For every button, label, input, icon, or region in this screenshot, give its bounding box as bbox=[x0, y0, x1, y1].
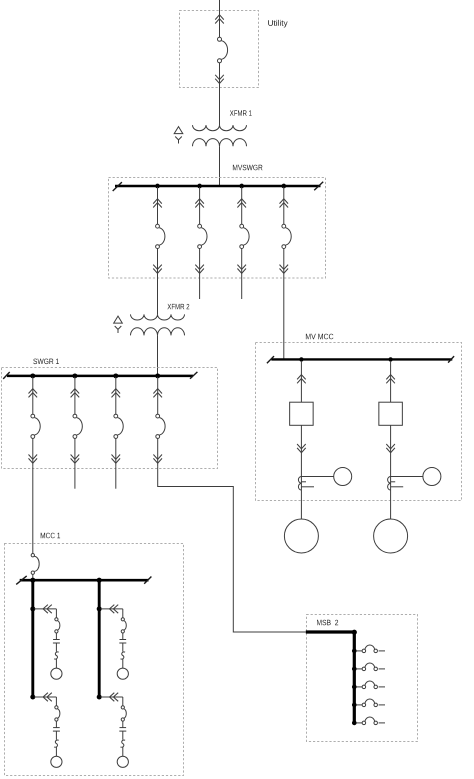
node: riser 2 tap A bbox=[97, 606, 102, 611]
XFMR 2 wye symbol bbox=[115, 326, 122, 333]
MVSWGR feeder breaker 2 (drawout disconnect) bbox=[195, 187, 207, 277]
XFMR 1 delta symbol bbox=[174, 127, 183, 134]
SWGR 1 feeder breaker 2 (drawout disconnect) bbox=[71, 377, 83, 467]
node: MSB 2 bus corner bbox=[352, 630, 357, 635]
node: MVSWGR bus tap 3 bbox=[239, 184, 244, 189]
XFMR 2 delta symbol bbox=[114, 316, 123, 323]
MVSWGR feeder breaker 1 (drawout disconnect) bbox=[153, 187, 165, 277]
MCC 1 dashed enclosure bbox=[5, 544, 184, 776]
MSB 2 dashed enclosure bbox=[307, 615, 418, 742]
wire: MVSWGR feeder 4 to MV MCC bus bbox=[283, 277, 285, 359]
MCC 1 branch starter 2A (switch, fuse, overload, motor) bbox=[101, 605, 129, 680]
utility disconnect switch: drawout chevrons down bbox=[215, 75, 224, 84]
MCC 1 incoming switch top contact bbox=[31, 554, 34, 557]
wire: SWGR 1 feeder 4 down then right bbox=[158, 467, 306, 632]
wire: SWGR 1 feeder 1 down to MCC 1 bbox=[32, 467, 34, 554]
utility disconnect switch: top contact bbox=[218, 37, 222, 41]
label Utility bbox=[268, 20, 287, 28]
label XFMR 2 bbox=[167, 304, 189, 309]
node: SWGR 1 bus tap 4 bbox=[155, 373, 160, 378]
MSB 2 branch switch 3 bbox=[356, 681, 385, 689]
label MV MCC bbox=[306, 334, 334, 340]
bus MSB 2 vertical bbox=[353, 632, 356, 723]
wire: MVSWGR feeder 1 to XFMR 2 bbox=[157, 277, 159, 314]
label MVSWGR bbox=[233, 165, 263, 171]
node: riser 2 tap B bbox=[97, 695, 102, 700]
XFMR 1 wye symbol bbox=[175, 137, 182, 144]
SWGR 1 feeder breaker 4 (drawout disconnect) bbox=[153, 377, 165, 467]
bus MCC 1 left end slash bbox=[16, 576, 27, 585]
wire: XFMR 1 to MVSWGR bus bbox=[219, 146, 221, 186]
MSB 2 branch switch 4 bbox=[356, 699, 385, 707]
bus MVSWGR left end slash bbox=[113, 182, 122, 191]
node: MSB 2 tap 5 bbox=[352, 721, 357, 726]
node: MVSWGR bus tap 4 bbox=[281, 184, 286, 189]
bus MV MCC bbox=[271, 358, 452, 360]
node: riser 1 tap B bbox=[30, 695, 35, 700]
transformer XFMR 1 secondary winding bbox=[193, 139, 247, 147]
node: MSB 2 tap 2 bbox=[352, 667, 357, 672]
MSB 2 branch switch 1 bbox=[356, 645, 385, 653]
transformer XFMR 2 secondary winding bbox=[131, 328, 185, 336]
bus MSB 2 horizontal bbox=[306, 630, 355, 633]
node: MSB 2 tap 4 bbox=[352, 703, 357, 708]
node: riser 1 tap A bbox=[30, 606, 35, 611]
MV MCC motor starter 1 (contactor, CTs, meter, motor) bbox=[284, 361, 351, 553]
transformer XFMR 1 primary winding bbox=[193, 125, 247, 131]
node: MSB 2 tap 3 bbox=[352, 685, 357, 690]
MCC 1 branch starter 2B (switch, fuse, overload, motor) bbox=[101, 693, 129, 768]
bus MV MCC right end slash bbox=[448, 356, 454, 363]
utility disconnect switch: bottom contact bbox=[218, 59, 222, 63]
label MCC 1 bbox=[41, 533, 60, 539]
MCC 1 riser 2 (vertical feeder bus) bbox=[98, 580, 101, 697]
node: MSB 2 tap 1 bbox=[352, 649, 357, 654]
utility dashed enclosure bbox=[180, 11, 259, 88]
wire: utility switch to XFMR 1 bbox=[219, 63, 221, 125]
bus SWGR 1 right end slash bbox=[190, 372, 197, 379]
SWGR 1 dashed enclosure bbox=[2, 368, 218, 469]
label SWGR 1 bbox=[33, 359, 59, 365]
bus MV MCC left end slash bbox=[267, 356, 274, 363]
node: SWGR 1 bus tap 2 bbox=[72, 373, 77, 378]
MCC 1 incoming switch blade arc bbox=[34, 556, 39, 571]
MCC 1 riser 1 (vertical feeder bus) bbox=[31, 580, 34, 697]
node: MCC 1 bus tap 1 bbox=[30, 578, 35, 583]
SWGR 1 feeder breaker 3 (drawout disconnect) bbox=[112, 377, 124, 467]
wire: SWGR 1 feeder 3 stub bbox=[115, 467, 117, 489]
wire: utility incoming feed bbox=[219, 0, 221, 37]
MCC 1 incoming switch bottom contact bbox=[31, 571, 34, 574]
MVSWGR dashed enclosure bbox=[109, 178, 326, 279]
label XFMR 1 bbox=[230, 110, 252, 115]
utility disconnect switch: blade arc bbox=[221, 41, 227, 60]
MSB 2 branch switch 5 bbox=[356, 717, 385, 725]
node: MV MCC bus tap 2 bbox=[388, 357, 392, 361]
wire: MVSWGR feeder 3 stub bbox=[241, 277, 243, 299]
bus MVSWGR bbox=[115, 185, 321, 188]
MVSWGR feeder breaker 4 (drawout disconnect) bbox=[280, 187, 292, 277]
SWGR 1 feeder breaker 1 (drawout disconnect) bbox=[29, 377, 41, 467]
transformer XFMR 2 primary winding bbox=[131, 314, 185, 320]
MVSWGR feeder breaker 3 (drawout disconnect) bbox=[237, 187, 249, 277]
MV MCC dashed enclosure bbox=[256, 343, 462, 501]
MCC 1 branch starter 1A (switch, fuse, overload, motor) bbox=[34, 605, 62, 680]
bus SWGR 1 left end slash bbox=[3, 372, 10, 379]
label MSB 2 bbox=[317, 620, 338, 626]
node: MVSWGR bus tap 2 bbox=[197, 184, 202, 189]
node: SWGR 1 bus tap 3 bbox=[113, 373, 118, 378]
node: MCC 1 bus tap 2 bbox=[97, 578, 102, 583]
node: SWGR 1 bus tap 1 bbox=[30, 373, 35, 378]
MV MCC motor starter 2 (contactor, CTs, meter, motor) bbox=[374, 361, 441, 553]
MSB 2 branch switch 2 bbox=[356, 663, 385, 671]
bus MCC 1 bbox=[20, 579, 149, 582]
utility disconnect switch: drawout chevrons up bbox=[215, 15, 224, 24]
wire: SWGR 1 feeder 2 stub bbox=[74, 467, 76, 489]
node: MV MCC bus tap 1 bbox=[299, 357, 303, 361]
node: MVSWGR bus tap 1 bbox=[155, 184, 160, 189]
MCC 1 branch starter 1B (switch, fuse, overload, motor) bbox=[34, 693, 62, 768]
bus SWGR 1 bbox=[7, 375, 193, 378]
bus MCC 1 right end slash bbox=[144, 577, 151, 584]
wire: XFMR 2 to SWGR 1 bus bbox=[157, 335, 159, 376]
bus MVSWGR right end slash bbox=[314, 182, 323, 190]
wire: MVSWGR feeder 2 stub bbox=[199, 277, 201, 299]
wire: MCC 1 switch to bus bbox=[32, 574, 34, 580]
